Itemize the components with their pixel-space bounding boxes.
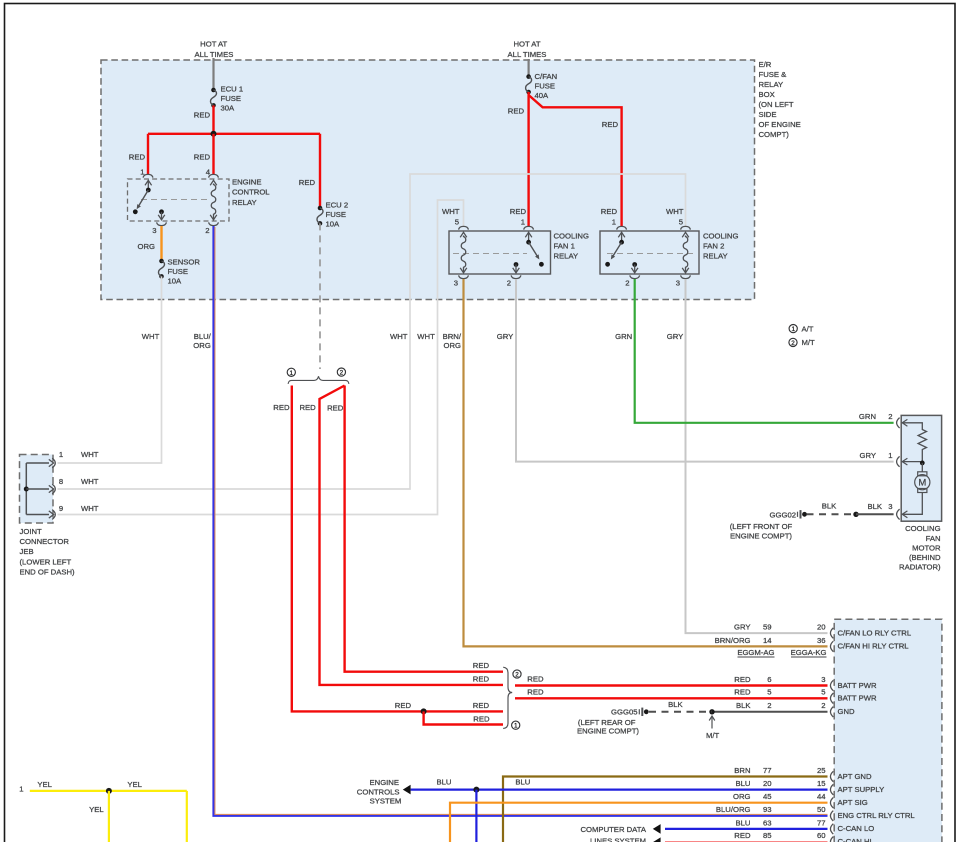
label BLK dashed <box>822 502 837 511</box>
svg-text:GRY: GRY <box>859 451 876 460</box>
wire BLK GGG02 to motor <box>856 513 894 515</box>
wire RED batt pwr 1 <box>515 684 828 686</box>
svg-text:RED: RED <box>299 403 316 412</box>
svg-text:C-CAN HI: C-CAN HI <box>838 837 872 842</box>
svg-text:YEL: YEL <box>127 780 142 789</box>
pin 1 arrow <box>145 180 152 190</box>
fan1 pin1 arc <box>524 226 534 229</box>
fuse ECU 2 10A <box>317 206 323 226</box>
svg-text:BLK: BLK <box>668 700 683 709</box>
svg-text:2: 2 <box>340 370 344 377</box>
wire RED cfan to fan1 relay pin1 <box>527 92 529 226</box>
legend A/T <box>789 324 814 333</box>
svg-text:RED: RED <box>395 701 412 710</box>
junction red1 <box>421 708 427 714</box>
wire BLU down <box>475 790 477 842</box>
label RED out2 <box>527 688 544 697</box>
wire YEL horizontal <box>30 790 187 792</box>
fan1 coil <box>460 232 467 272</box>
label pin 1 fan1 <box>521 218 525 227</box>
wire RED fuse to junction <box>212 105 214 135</box>
M/T arrow <box>706 716 720 740</box>
label pin 2 fan2 <box>625 279 629 288</box>
svg-text:RED: RED <box>299 178 316 187</box>
wire BLK GND solid <box>712 711 828 713</box>
svg-text:5: 5 <box>821 688 825 697</box>
svg-text:BRN/ORG: BRN/ORG <box>715 636 751 645</box>
svg-text:85: 85 <box>763 831 772 840</box>
svg-text:LINES SYSTEM: LINES SYSTEM <box>590 837 646 842</box>
label RED stub a3 <box>473 714 490 723</box>
brace over variant wires <box>288 376 349 384</box>
label BLK 3 <box>867 502 892 511</box>
svg-text:FUSE &: FUSE & <box>759 70 787 79</box>
fan1 pin2 arrow <box>513 265 520 273</box>
label BLK pcm <box>0 0 1 1</box>
fan2 pin1 arrow <box>618 232 625 242</box>
labels RED 85 60 <box>734 831 825 840</box>
svg-text:ENG CTRL RLY CTRL: ENG CTRL RLY CTRL <box>838 811 916 820</box>
svg-text:RELAY: RELAY <box>232 198 257 207</box>
JEB junction dot <box>24 487 29 492</box>
svg-text:14: 14 <box>763 636 772 645</box>
svg-text:APT SUPPLY: APT SUPPLY <box>838 785 885 794</box>
svg-text:M/T: M/T <box>802 338 816 347</box>
svg-text:36: 36 <box>817 636 826 645</box>
svg-text:5: 5 <box>679 218 683 227</box>
svg-text:2: 2 <box>821 701 825 710</box>
svg-text:RED: RED <box>273 403 290 412</box>
labels BLU 63 77 <box>736 818 826 827</box>
label GGG05 <box>611 708 638 717</box>
circled 1 top <box>287 368 295 377</box>
svg-text:1: 1 <box>791 326 795 333</box>
junction blu <box>473 787 479 793</box>
svg-text:ENGINE COMPT): ENGINE COMPT) <box>577 726 639 735</box>
junction GGG05 <box>709 709 714 714</box>
label WHT fan1 pin5 <box>442 207 460 216</box>
svg-text:RED: RED <box>194 111 211 120</box>
svg-text:GGG05: GGG05 <box>611 708 638 717</box>
svg-text:2: 2 <box>625 279 629 288</box>
label pin 1 fan2 <box>612 218 616 227</box>
svg-text:C/FAN HI RLY CTRL: C/FAN HI RLY CTRL <box>838 642 910 651</box>
motor junction <box>920 461 925 466</box>
fan2 pin2 arrow <box>631 265 638 273</box>
PCM box <box>834 619 942 842</box>
switch pivot dot <box>146 188 151 193</box>
fuse C/FAN 40A <box>526 74 532 94</box>
label JEB pin 8 <box>59 477 63 486</box>
wire supply to C/FAN fuse <box>527 59 529 77</box>
svg-text:RED: RED <box>473 714 490 723</box>
label COMPUTER DATA LINES SYSTEM <box>581 825 647 842</box>
label RED v2b <box>327 404 344 413</box>
JEB stub 8 <box>26 488 49 490</box>
svg-text:WHT: WHT <box>390 332 408 341</box>
svg-text:RED: RED <box>473 675 490 684</box>
pin 3 arc <box>157 222 167 225</box>
labels GRY 59 20 <box>734 623 826 632</box>
svg-text:YEL: YEL <box>37 780 52 789</box>
motor resistor <box>918 430 926 463</box>
svg-text:10A: 10A <box>326 220 341 229</box>
svg-text:RED: RED <box>194 153 211 162</box>
svg-text:RED: RED <box>527 688 544 697</box>
wire RED variant1 <box>292 386 503 712</box>
merge brace <box>503 667 512 728</box>
label GRN 2 <box>859 412 893 421</box>
label ENGINE CONTROL RELAY <box>232 178 270 208</box>
svg-text:C-CAN LO: C-CAN LO <box>838 824 875 833</box>
wire GRY fan1 pin2 to motor pin1 <box>516 279 894 462</box>
fan2 pin3 arc <box>681 275 691 278</box>
svg-text:ENGINE: ENGINE <box>370 778 399 787</box>
label ECU 2 FUSE 10A <box>326 201 349 229</box>
JEB pin 8 symbol <box>49 484 56 494</box>
fan2 coil <box>682 232 689 272</box>
wire BLU c-can lo <box>665 828 828 830</box>
wire RED bus horizontal <box>148 133 320 135</box>
svg-text:JOINT: JOINT <box>20 527 43 536</box>
label BLU/ORG <box>193 332 211 350</box>
svg-text:RED: RED <box>734 675 751 684</box>
svg-text:END OF DASH): END OF DASH) <box>20 568 76 577</box>
JEB pin 1 symbol <box>49 458 56 468</box>
svg-text:RED: RED <box>510 207 527 216</box>
label GGG02 <box>770 510 797 519</box>
labels ORG 45 44 <box>733 792 826 801</box>
svg-text:OF ENGINE: OF ENGINE <box>759 120 801 129</box>
svg-text:CONNECTOR: CONNECTOR <box>20 537 70 546</box>
svg-text:1: 1 <box>59 450 63 459</box>
label SENSOR FUSE 10A <box>168 258 201 286</box>
svg-text:WHT: WHT <box>81 504 99 513</box>
svg-text:25: 25 <box>817 766 826 775</box>
svg-text:RELAY: RELAY <box>703 252 728 261</box>
label LEFT FRONT OF <box>730 522 793 541</box>
svg-text:1: 1 <box>19 785 23 794</box>
labels BRN 77 25 <box>734 766 825 775</box>
svg-text:MOTOR: MOTOR <box>912 544 941 553</box>
svg-text:BLU: BLU <box>736 779 751 788</box>
wire YEL down b <box>186 791 188 842</box>
svg-text:EGGA-KG: EGGA-KG <box>791 648 827 657</box>
svg-text:RED: RED <box>129 153 146 162</box>
svg-text:GRY: GRY <box>734 623 751 632</box>
svg-text:15: 15 <box>817 779 826 788</box>
label pin 2 <box>205 226 209 235</box>
motor pin1 line <box>902 461 922 463</box>
svg-text:1: 1 <box>514 723 518 730</box>
E/R box label <box>759 60 801 139</box>
motor link <box>921 463 923 472</box>
svg-text:C/FAN LO RLY CTRL: C/FAN LO RLY CTRL <box>838 628 912 637</box>
svg-text:40A: 40A <box>535 91 550 100</box>
label WHT jeb1 <box>81 450 99 459</box>
svg-text:77: 77 <box>763 766 772 775</box>
fuse SENSOR 10A <box>159 259 165 279</box>
label GRY below fan1 <box>497 332 514 341</box>
svg-text:RED: RED <box>473 661 490 670</box>
svg-text:BLU/: BLU/ <box>194 332 212 341</box>
svg-text:CONTROLS: CONTROLS <box>357 787 400 796</box>
label YEL 1 <box>37 780 52 789</box>
svg-text:3: 3 <box>821 675 825 684</box>
wire ORG pin3 <box>160 226 162 261</box>
svg-text:FAN 2: FAN 2 <box>703 242 724 251</box>
label pin 3 fan1 <box>454 279 458 288</box>
fan2 switch <box>611 242 622 259</box>
motor pin 1 symbol <box>897 456 908 466</box>
arrow engine controls <box>403 785 411 795</box>
label pin 3 fan2 <box>676 279 680 288</box>
relay coil <box>210 180 217 220</box>
label RED v1 <box>273 403 290 412</box>
svg-text:COOLING: COOLING <box>703 232 738 241</box>
svg-text:3: 3 <box>676 279 680 288</box>
svg-text:3: 3 <box>888 502 892 511</box>
label YEL 2 <box>127 780 142 789</box>
label WHT <box>142 332 160 341</box>
svg-text:BRN/: BRN/ <box>443 332 462 341</box>
label JEB pin 9 <box>59 504 63 513</box>
svg-text:GND: GND <box>838 707 856 716</box>
label RED pin1 <box>129 153 146 162</box>
svg-text:HOT AT: HOT AT <box>200 40 227 49</box>
svg-text:BOX: BOX <box>759 90 775 99</box>
wire RED to relay pin 4 <box>212 134 214 175</box>
svg-text:2: 2 <box>888 412 892 421</box>
label RED pin4 <box>194 153 211 162</box>
label pin 4 <box>206 168 211 177</box>
fan1 pin2 dot <box>514 262 519 267</box>
label RED stub b <box>473 675 490 684</box>
label YEL 3 <box>89 805 104 814</box>
svg-text:ORG: ORG <box>443 341 461 350</box>
label BLU right <box>515 778 530 787</box>
svg-text:ALL TIMES: ALL TIMES <box>508 50 547 59</box>
fan1 pin1 arrow <box>525 232 532 242</box>
svg-text:ORG: ORG <box>137 242 155 251</box>
engine relay internal dashed line <box>141 199 209 201</box>
label pin 5 fan2 <box>679 218 683 227</box>
fan2 pin2 arc <box>630 275 640 278</box>
svg-text:44: 44 <box>817 792 826 801</box>
svg-text:1: 1 <box>290 370 294 377</box>
label JEB pin 1 <box>59 450 63 459</box>
svg-text:RED: RED <box>734 831 751 840</box>
svg-text:FUSE: FUSE <box>535 82 556 91</box>
label RED out1 <box>527 675 544 684</box>
svg-text:(BEHIND: (BEHIND <box>909 553 941 562</box>
svg-text:3: 3 <box>454 279 458 288</box>
label ECU 1 FUSE 30A <box>221 85 244 113</box>
arrow computer data 2 <box>653 837 661 842</box>
joint connector JEB box <box>20 455 54 524</box>
svg-text:GRY: GRY <box>667 332 684 341</box>
label RED fan1 pin1 <box>510 207 527 216</box>
svg-text:M: M <box>918 478 926 489</box>
circled 2 top <box>337 368 345 377</box>
svg-text:JEB: JEB <box>20 547 34 556</box>
label RED stub a1 <box>395 701 412 710</box>
wire WHT sensor fuse down-left to JEB pin1 <box>58 276 162 463</box>
svg-text:BLU: BLU <box>437 778 452 787</box>
svg-text:BATT PWR: BATT PWR <box>838 694 877 703</box>
label WHT fan2 pin5 <box>666 207 684 216</box>
fan2 switch pivot dot <box>619 240 624 245</box>
pin 1 arc <box>143 174 153 177</box>
wire RED variant1 stub <box>424 711 503 724</box>
PCM pin names <box>838 628 916 842</box>
labels BLU/ORG 93 50 <box>716 805 826 814</box>
svg-text:FUSE: FUSE <box>221 94 242 103</box>
svg-text:COOLING: COOLING <box>554 232 589 241</box>
fan1 pin2 arc <box>511 275 521 278</box>
svg-text:ENGINE: ENGINE <box>232 178 261 187</box>
wire BRN apt gnd <box>503 777 828 842</box>
wire RED c-can hi <box>665 841 828 842</box>
svg-text:RELAY: RELAY <box>554 252 579 261</box>
svg-text:20: 20 <box>817 623 826 632</box>
motor pin 3 symbol <box>897 509 908 519</box>
label RED fan2 pin1 <box>601 207 618 216</box>
svg-text:5: 5 <box>455 218 459 227</box>
pin 2 arc <box>209 222 219 225</box>
cooling fan 2 relay box <box>600 231 699 274</box>
labels BLK 2 2 <box>736 701 826 710</box>
svg-text:1: 1 <box>612 218 616 227</box>
svg-text:ORG: ORG <box>733 792 751 801</box>
wire YEL down a <box>108 791 110 842</box>
ground GGG02 <box>798 510 807 518</box>
svg-text:RELAY: RELAY <box>759 80 784 89</box>
svg-text:ORG: ORG <box>193 341 211 350</box>
svg-text:FAN 1: FAN 1 <box>554 242 575 251</box>
fan2 pin5 arc <box>681 226 691 229</box>
svg-text:BLU: BLU <box>736 818 751 827</box>
wire WHT fan1 pin5 loop to JEB pin9 <box>58 200 464 515</box>
fan1 throw dot <box>539 262 544 267</box>
JEB stub 9 <box>26 514 49 516</box>
label RED v2a <box>299 403 316 412</box>
svg-text:ECU 1: ECU 1 <box>221 85 244 94</box>
fan2 throw dot <box>605 262 610 267</box>
svg-text:BLU: BLU <box>515 778 530 787</box>
svg-text:BLK: BLK <box>867 502 882 511</box>
svg-text:WHT: WHT <box>417 332 435 341</box>
wire RED variant2a <box>320 386 504 685</box>
label ENGINE CONTROLS SYSTEM <box>357 778 402 806</box>
label RED branch <box>602 120 619 129</box>
wire BRN/ORG fan1 pin3 to PCM <box>464 279 828 646</box>
svg-text:63: 63 <box>763 818 772 827</box>
wire supply to ECU1 fuse <box>212 58 214 90</box>
svg-text:C/FAN: C/FAN <box>535 72 558 81</box>
wire RED to relay pin 1 <box>147 134 149 175</box>
label JOINT CONNECTOR JEB <box>20 527 76 577</box>
svg-text:93: 93 <box>763 805 772 814</box>
label RED <box>194 111 211 120</box>
svg-text:GGG02: GGG02 <box>770 510 797 519</box>
svg-text:5: 5 <box>767 688 771 697</box>
label BRN/ORG below <box>443 332 462 350</box>
svg-text:59: 59 <box>763 623 772 632</box>
svg-text:ALL TIMES: ALL TIMES <box>194 50 233 59</box>
wire GRY fan2 pin3 to PCM <box>686 279 828 633</box>
wire BLK dashed GGG05 <box>649 711 712 713</box>
svg-text:A/T: A/T <box>802 324 814 333</box>
svg-text:45: 45 <box>763 792 772 801</box>
svg-text:COMPT): COMPT) <box>759 130 790 139</box>
svg-text:SYSTEM: SYSTEM <box>370 797 402 806</box>
label C/FAN FUSE 40A <box>535 72 558 100</box>
svg-text:RED: RED <box>508 107 525 116</box>
JEB pin 9 symbol <box>49 510 56 520</box>
label 1 yel <box>19 785 23 794</box>
motor M <box>915 472 930 493</box>
svg-text:WHT: WHT <box>442 207 460 216</box>
svg-text:FUSE: FUSE <box>326 210 347 219</box>
label COOLING FAN 1 RELAY <box>554 232 589 261</box>
pin 4 arc <box>209 174 219 177</box>
svg-text:77: 77 <box>817 818 826 827</box>
labels BLU 20 15 <box>736 779 826 788</box>
label RED cfan <box>508 107 525 116</box>
svg-text:RED: RED <box>527 675 544 684</box>
svg-text:M/T: M/T <box>706 731 720 740</box>
label GRY 1 <box>859 451 892 460</box>
svg-text:EGGM-AG: EGGM-AG <box>737 648 774 657</box>
wire ORG apt sig <box>450 803 828 842</box>
svg-text:60: 60 <box>817 831 826 840</box>
svg-text:20: 20 <box>763 779 772 788</box>
label pin 2 fan1 <box>507 279 511 288</box>
circled 1 merge <box>512 721 520 730</box>
label RED ecu2 <box>299 178 316 187</box>
fan1 pin3 arc <box>459 275 469 278</box>
svg-text:CONTROL: CONTROL <box>232 188 270 197</box>
motor pin 2 symbol <box>897 418 908 428</box>
labels RED 6 3 <box>734 675 825 684</box>
svg-text:30A: 30A <box>221 103 236 112</box>
svg-text:RED: RED <box>327 404 344 413</box>
svg-text:RED: RED <box>602 120 619 129</box>
label GRY below fan2 <box>667 332 684 341</box>
wire RED branch to fan2 relay pin1 <box>529 95 622 226</box>
fan1 pin5 arc <box>459 226 469 229</box>
svg-text:(LOWER LEFT: (LOWER LEFT <box>20 558 72 567</box>
wire BLU/ORG pin2 to PCM <box>214 226 828 816</box>
svg-text:WHT: WHT <box>81 477 99 486</box>
fan1 internal dashed line <box>453 253 527 255</box>
svg-text:WHT: WHT <box>666 207 684 216</box>
svg-text:BLK: BLK <box>822 502 837 511</box>
label WHT a <box>390 332 408 341</box>
fan2 pin1 arc <box>617 226 627 229</box>
label RED stub a2 <box>473 701 490 710</box>
pin 3 arrow <box>158 212 165 220</box>
svg-text:1: 1 <box>521 218 525 227</box>
ground GGG05 <box>639 708 648 716</box>
label pin 1 <box>140 168 144 177</box>
fuse ECU 1 30A <box>211 88 217 108</box>
svg-text:COMPUTER DATA: COMPUTER DATA <box>581 825 647 834</box>
svg-text:FAN: FAN <box>926 534 941 543</box>
svg-text:HOT AT: HOT AT <box>513 40 540 49</box>
cooling fan 1 relay box <box>449 231 551 274</box>
